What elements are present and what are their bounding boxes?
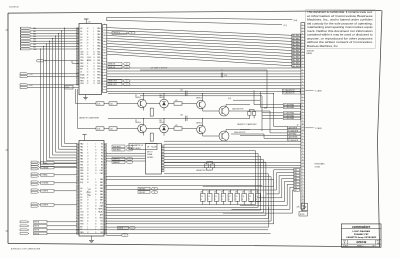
svg-text:6: 6 bbox=[242, 199, 243, 201]
wire +5V cass motor line bbox=[140, 67, 267, 108]
svg-text:KBD IN: KBD IN bbox=[109, 64, 116, 66]
svg-text:*1 CASS: *1 CASS bbox=[315, 89, 323, 92]
svg-text:37: 37 bbox=[87, 77, 89, 79]
svg-text:9: 9 bbox=[93, 48, 94, 50]
resistor emitter 1 bbox=[144, 107, 154, 116]
svg-text:3: 3 bbox=[222, 199, 223, 201]
label KBD ROW D2 with oval bbox=[108, 66, 130, 69]
svg-text:C4: C4 bbox=[242, 196, 244, 198]
svg-text:5: 5 bbox=[236, 199, 237, 201]
label cassette 2 amplifier bbox=[237, 123, 257, 126]
svg-text:2: 2 bbox=[93, 28, 94, 30]
svg-text:D4: D4 bbox=[80, 40, 82, 42]
wires cassette sense to U1 bbox=[28, 74, 79, 77]
wire bus U1 PA to right connector bbox=[107, 28, 292, 66]
svg-text:(3.1): (3.1) bbox=[284, 25, 288, 27]
svg-text:15: 15 bbox=[95, 150, 97, 152]
svg-text:C4: C4 bbox=[222, 196, 224, 198]
svg-text:KSW ROW: KSW ROW bbox=[113, 150, 121, 152]
svg-text:9: 9 bbox=[302, 193, 303, 195]
VCC tee above U3 bbox=[82, 135, 86, 141]
svg-text:4: 4 bbox=[302, 69, 303, 71]
svg-text:27: 27 bbox=[87, 46, 89, 48]
U3 left pin stubs bbox=[76, 144, 79, 235]
label box TO CASS 2 bbox=[129, 143, 157, 150]
svg-text:U8: U8 bbox=[147, 147, 149, 149]
svg-text:3: 3 bbox=[95, 161, 96, 163]
svg-text:10: 10 bbox=[302, 87, 304, 89]
svg-text:CS1: CS1 bbox=[80, 215, 83, 217]
svg-text:5: 5 bbox=[302, 181, 303, 183]
svg-text:CB2: CB2 bbox=[100, 173, 103, 175]
svg-text:3: 3 bbox=[302, 66, 303, 68]
svg-text:8: 8 bbox=[302, 81, 303, 83]
svg-text:TO CASS MTR: TO CASS MTR bbox=[288, 130, 299, 133]
svg-text:*2 CASS: *2 CASS bbox=[315, 127, 323, 130]
svg-text:*2 CASS READ: *2 CASS READ bbox=[284, 117, 294, 120]
wire input to transistor 1 bbox=[104, 103, 138, 105]
svg-text:EN: EN bbox=[80, 69, 83, 71]
svg-text:14: 14 bbox=[87, 156, 89, 158]
svg-text:8: 8 bbox=[95, 147, 96, 149]
svg-text:2N3904: 2N3904 bbox=[135, 122, 141, 124]
commodore logo bbox=[352, 225, 370, 229]
wires diag pins to U1 bbox=[28, 85, 79, 88]
wire Q2c output bbox=[226, 130, 250, 132]
svg-text:3: 3 bbox=[302, 102, 303, 104]
svg-text:32: 32 bbox=[87, 173, 89, 175]
svg-text:A PRODUCT OF COMMODORE: A PRODUCT OF COMMODORE bbox=[11, 248, 41, 251]
svg-text:CA2: CA2 bbox=[80, 178, 83, 181]
svg-text:16: 16 bbox=[87, 197, 89, 199]
svg-text:CB1: CB1 bbox=[100, 170, 103, 172]
svg-text:D2: D2 bbox=[80, 34, 82, 36]
svg-text:10: 10 bbox=[93, 57, 95, 59]
svg-text:CB2: CB2 bbox=[97, 83, 100, 85]
svg-text:D7: D7 bbox=[80, 209, 82, 211]
svg-text:NOTE: NOTE bbox=[300, 214, 304, 216]
svg-text:KEYBRD: KEYBRD bbox=[147, 157, 154, 159]
svg-text:6: 6 bbox=[302, 184, 303, 186]
wire cass read vertical links bbox=[228, 90, 283, 107]
svg-text:11: 11 bbox=[302, 54, 304, 56]
svg-text:D2: D2 bbox=[80, 194, 82, 196]
svg-text:PB2: PB2 bbox=[97, 63, 100, 65]
svg-text:(2.8): (2.8) bbox=[228, 98, 232, 100]
svg-text:KBD RW4: KBD RW4 bbox=[292, 47, 299, 49]
resistor R input 1 bbox=[96, 102, 104, 106]
label box above title block bbox=[299, 212, 308, 217]
svg-text:KB2: KB2 bbox=[100, 185, 103, 187]
wire keyboard lines upper pair bbox=[106, 185, 262, 189]
svg-text:KB6: KB6 bbox=[100, 197, 103, 199]
svg-text:7: 7 bbox=[302, 114, 303, 116]
border zone tick left bbox=[6, 30, 8, 231]
label CASS 1 READ with connector oval bbox=[112, 31, 135, 34]
label pair cass motor top tags bbox=[282, 89, 300, 95]
wire Q1c output bbox=[226, 105, 250, 107]
svg-text:40: 40 bbox=[93, 51, 95, 53]
svg-text:3: 3 bbox=[302, 139, 303, 141]
wire bus U3 keyboard rows lower bbox=[106, 205, 274, 224]
svg-text:CONN: CONN bbox=[315, 166, 321, 168]
VCC power tee above U1 bbox=[84, 19, 92, 24]
svg-text:KB2: KB2 bbox=[294, 175, 297, 177]
svg-text:8: 8 bbox=[256, 199, 257, 201]
svg-text:R2: R2 bbox=[101, 161, 103, 163]
svg-text:*1 CASS READ: *1 CASS READ bbox=[284, 103, 294, 106]
svg-text:12: 12 bbox=[302, 166, 304, 168]
resistor emitter 2 bbox=[144, 132, 154, 141]
svg-text:CASS MOTOR: CASS MOTOR bbox=[234, 131, 246, 134]
label KBD OUT 2 with oval bbox=[108, 83, 130, 86]
svg-text:28: 28 bbox=[95, 206, 97, 208]
svg-text:7: 7 bbox=[93, 43, 94, 45]
svg-text:9: 9 bbox=[95, 215, 96, 217]
svg-text:KB4: KB4 bbox=[100, 191, 103, 193]
svg-text:CR2: CR2 bbox=[159, 120, 162, 122]
svg-text:2: 2 bbox=[215, 199, 216, 201]
svg-text:25: 25 bbox=[87, 206, 89, 208]
svg-text:320349-B: 320349-B bbox=[9, 7, 19, 9]
svg-text:4: 4 bbox=[93, 34, 94, 36]
svg-text:R3: R3 bbox=[101, 164, 103, 166]
svg-text:3: 3 bbox=[302, 175, 303, 177]
svg-text:PB3: PB3 bbox=[80, 170, 83, 172]
svg-text:13: 13 bbox=[93, 66, 95, 68]
svg-text:4: 4 bbox=[302, 105, 303, 107]
svg-text:K3: K3 bbox=[101, 153, 103, 155]
svg-text:R0: R0 bbox=[101, 156, 103, 158]
transistor Q 1b 2N3904 bbox=[196, 97, 205, 108]
svg-text:PA1: PA1 bbox=[80, 146, 83, 149]
svg-text:2N3904: 2N3904 bbox=[135, 97, 141, 99]
svg-text:35: 35 bbox=[87, 176, 89, 178]
svg-text:5: 5 bbox=[87, 147, 88, 149]
U3 right pin boxes column bbox=[104, 144, 107, 235]
svg-text:CS0: CS0 bbox=[80, 51, 83, 53]
U1 right pin stubs bbox=[102, 29, 103, 84]
svg-text:KB7: KB7 bbox=[100, 200, 103, 202]
svg-text:D6: D6 bbox=[80, 206, 82, 208]
svg-text:CASSETTE #1 AMPLIFIER: CASSETTE #1 AMPLIFIER bbox=[79, 117, 100, 120]
svg-text:38: 38 bbox=[87, 75, 89, 77]
svg-text:7: 7 bbox=[302, 187, 303, 189]
svg-text:SIGNAL: SIGNAL bbox=[147, 153, 153, 156]
svg-text:SCALE: SCALE bbox=[343, 245, 348, 248]
svg-text:D0: D0 bbox=[80, 28, 82, 30]
svg-text:RS0: RS0 bbox=[80, 217, 83, 219]
wires U3 to U2 decoder bbox=[106, 154, 146, 162]
connector pins bottom-left group bbox=[20, 221, 29, 235]
svg-text:U3: U3 bbox=[88, 189, 90, 191]
svg-text:38: 38 bbox=[87, 179, 89, 181]
label stack cass read tags bbox=[283, 103, 300, 109]
svg-text:10K: 10K bbox=[228, 192, 231, 194]
svg-text:10K: 10K bbox=[242, 192, 245, 194]
svg-text:commodore: commodore bbox=[352, 225, 370, 229]
svg-text:KEYBOARD: KEYBOARD bbox=[315, 163, 326, 166]
wire pin E to U1 bbox=[44, 61, 79, 64]
resistor R2 input 1 bbox=[109, 102, 117, 106]
svg-text:9: 9 bbox=[87, 229, 88, 231]
wire base link 2 bbox=[146, 118, 196, 129]
svg-text:14: 14 bbox=[95, 200, 97, 202]
svg-text:EN: EN bbox=[80, 226, 83, 228]
label KBD ROW D with oval bbox=[108, 62, 130, 65]
svg-text:02: 02 bbox=[80, 229, 82, 231]
svg-text:G: G bbox=[154, 192, 155, 194]
cassette jumper 1 symbol bbox=[248, 109, 256, 118]
svg-text:4: 4 bbox=[104, 41, 105, 43]
svg-text:6: 6 bbox=[87, 226, 88, 228]
svg-text:#1 READ: #1 READ bbox=[41, 162, 48, 165]
svg-text:6: 6 bbox=[104, 52, 105, 54]
svg-text:26: 26 bbox=[87, 48, 89, 50]
svg-text:PB0: PB0 bbox=[80, 161, 83, 163]
svg-text:11: 11 bbox=[302, 90, 304, 92]
svg-text:1: 1 bbox=[104, 24, 105, 26]
svg-text:40: 40 bbox=[87, 80, 89, 82]
svg-text:3: 3 bbox=[87, 223, 88, 225]
svg-text:PA5: PA5 bbox=[97, 42, 100, 45]
svg-text:26: 26 bbox=[87, 167, 89, 169]
svg-text:CASS READ: CASS READ bbox=[288, 133, 298, 136]
wire bus J1 to U1 and vertical bus to U3 bbox=[32, 28, 80, 167]
title block rev cell A bbox=[377, 241, 380, 245]
svg-text:20: 20 bbox=[87, 161, 89, 163]
svg-text:1: 1 bbox=[95, 144, 96, 146]
svg-text:PB4: PB4 bbox=[80, 173, 83, 175]
svg-text:CASS SENSE: CASS SENSE bbox=[288, 136, 298, 139]
svg-text:C4: C4 bbox=[236, 196, 238, 198]
svg-text:DI0: DI0 bbox=[100, 220, 103, 222]
svg-text:7: 7 bbox=[249, 199, 250, 201]
svg-text:*2 CASS READ: *2 CASS READ bbox=[284, 112, 294, 115]
callout label cass 1 right of J2 bbox=[305, 89, 322, 92]
svg-text:6520: 6520 bbox=[87, 192, 91, 194]
svg-text:14: 14 bbox=[93, 69, 95, 71]
wires bottom-left group to U3 and across bbox=[47, 222, 271, 234]
svg-text:35: 35 bbox=[87, 63, 89, 65]
svg-text:5: 5 bbox=[95, 179, 96, 181]
svg-text:R/W: R/W bbox=[80, 223, 84, 225]
wires U3 row outputs lower bbox=[106, 177, 164, 180]
title block size cell B bbox=[343, 240, 346, 244]
transistor Q 1c power bbox=[219, 106, 229, 116]
label CASS MOTOR near Q2c bbox=[234, 131, 246, 134]
svg-text:NDAC: NDAC bbox=[98, 211, 103, 214]
svg-text:PB5: PB5 bbox=[97, 72, 100, 74]
svg-text:PB6: PB6 bbox=[97, 75, 100, 77]
svg-text:8: 8 bbox=[302, 154, 303, 156]
svg-text:1: 1 bbox=[302, 60, 303, 62]
svg-text:R1: R1 bbox=[101, 158, 103, 160]
svg-text:K2: K2 bbox=[101, 150, 103, 152]
svg-text:Business Machines, Inc.: Business Machines, Inc. bbox=[307, 44, 339, 48]
title block sheet row bbox=[343, 245, 376, 248]
svg-text:5: 5 bbox=[302, 145, 303, 147]
wire top reference B bbox=[107, 20, 288, 27]
svg-text:CB1: CB1 bbox=[30, 74, 33, 76]
svg-text:ATN: ATN bbox=[100, 214, 104, 217]
svg-text:3: 3 bbox=[104, 35, 105, 37]
svg-text:33: 33 bbox=[87, 28, 89, 30]
svg-text:36: 36 bbox=[95, 158, 97, 160]
svg-text:9: 9 bbox=[124, 235, 125, 237]
label cassette 1 amplifier bbox=[79, 117, 100, 120]
svg-text:2: 2 bbox=[302, 27, 303, 29]
svg-text:CS2: CS2 bbox=[80, 57, 83, 59]
wire U1 to amp inputs bbox=[76, 89, 97, 129]
svg-text:PB1: PB1 bbox=[97, 60, 100, 62]
svg-text:17: 17 bbox=[93, 77, 95, 79]
svg-text:PA2: PA2 bbox=[97, 33, 100, 36]
svg-text:PB4: PB4 bbox=[97, 69, 100, 71]
svg-text:29: 29 bbox=[95, 156, 97, 158]
svg-text:40: 40 bbox=[95, 194, 97, 196]
svg-text:BA3: BA3 bbox=[33, 35, 36, 38]
svg-text:#2 SENSE: #2 SENSE bbox=[41, 183, 48, 185]
svg-text:KB3: KB3 bbox=[100, 188, 103, 190]
wire bus mid to right connector lower bbox=[164, 141, 301, 168]
svg-text:D5: D5 bbox=[80, 43, 82, 45]
svg-text:KBD RW10: KBD RW10 bbox=[292, 66, 300, 68]
svg-text:8: 8 bbox=[87, 150, 88, 152]
svg-text:D7: D7 bbox=[80, 48, 82, 50]
svg-text:10: 10 bbox=[302, 124, 304, 126]
svg-text:RS0: RS0 bbox=[80, 60, 83, 62]
svg-text:2: 2 bbox=[95, 212, 96, 214]
svg-text:D0: D0 bbox=[80, 188, 82, 190]
svg-text:7: 7 bbox=[302, 42, 303, 44]
svg-text:C16: C16 bbox=[224, 75, 227, 77]
svg-text:LOGIC DIAGRAM: LOGIC DIAGRAM bbox=[352, 230, 370, 233]
ground symbol below U3 bbox=[89, 236, 94, 243]
svg-text:PA3: PA3 bbox=[97, 36, 100, 39]
svg-text:1N914: 1N914 bbox=[159, 122, 164, 124]
label CB2 with oval bbox=[138, 191, 158, 194]
label box RES on wire bbox=[65, 85, 73, 89]
+5V rail cassette amp 2 bbox=[108, 118, 250, 120]
svg-text:KB1: KB1 bbox=[100, 182, 103, 184]
svg-text:PA3: PA3 bbox=[80, 152, 83, 155]
svg-text:1: 1 bbox=[302, 133, 303, 135]
svg-text:18: 18 bbox=[93, 80, 95, 82]
svg-text:D3: D3 bbox=[80, 197, 82, 199]
svg-text:Q1: Q1 bbox=[135, 95, 137, 97]
IC U2 74145 BCD decoder bbox=[146, 144, 162, 175]
svg-text:8: 8 bbox=[93, 46, 94, 48]
label CB1 with oval bbox=[138, 187, 158, 190]
svg-text:12: 12 bbox=[302, 93, 304, 95]
label stack cassette motor tags bbox=[287, 126, 301, 142]
svg-text:PA6: PA6 bbox=[97, 45, 100, 48]
connector pins cassette sense left middle bbox=[20, 73, 33, 78]
svg-text:22: 22 bbox=[87, 51, 89, 53]
svg-text:IRQB: IRQB bbox=[80, 77, 85, 79]
svg-text:12: 12 bbox=[302, 57, 304, 59]
svg-text:KBD IN: KBD IN bbox=[109, 67, 116, 69]
svg-text:5: 5 bbox=[93, 37, 94, 39]
resistor R input 2 bbox=[96, 127, 104, 131]
confidentiality notice text block bbox=[306, 10, 376, 49]
svg-text:R4: R4 bbox=[101, 167, 103, 169]
svg-text:D6: D6 bbox=[80, 46, 82, 48]
wire Q1b emitter to Q1c base bbox=[203, 108, 219, 111]
svg-text:4: 4 bbox=[95, 229, 96, 231]
svg-text:8: 8 bbox=[302, 190, 303, 192]
wire fan keyboard tags bbox=[203, 170, 294, 213]
label stack keyboard outputs right bbox=[294, 169, 300, 192]
ground symbol below U1 bbox=[83, 95, 87, 100]
svg-text:12: 12 bbox=[95, 182, 97, 184]
svg-text:DI2: DI2 bbox=[100, 226, 103, 228]
svg-text:74L145: 74L145 bbox=[151, 147, 157, 149]
svg-text:Q2: Q2 bbox=[135, 120, 137, 122]
connector pins cassette read rows left bbox=[31, 161, 39, 207]
capacitor C3x on rail 1 bbox=[180, 89, 187, 96]
svg-text:16: 16 bbox=[95, 217, 97, 219]
svg-text:3: 3 bbox=[302, 30, 303, 32]
J1 pin labels bbox=[33, 27, 37, 51]
svg-text:CASS MOTOR: CASS MOTOR bbox=[232, 108, 244, 111]
wire collector Q1a to rail bbox=[143, 93, 144, 100]
svg-text:28: 28 bbox=[87, 43, 89, 45]
svg-text:PAGE: PAGE bbox=[307, 52, 313, 55]
svg-text:*2 CASS READ: *2 CASS READ bbox=[284, 114, 294, 117]
label stack cass write tags bbox=[262, 112, 300, 121]
svg-text:8: 8 bbox=[104, 64, 105, 66]
svg-text:10K: 10K bbox=[207, 192, 210, 194]
svg-text:6: 6 bbox=[93, 40, 94, 42]
svg-text:30: 30 bbox=[87, 37, 89, 39]
svg-text:41: 41 bbox=[87, 182, 89, 184]
svg-text:KEY IN: KEY IN bbox=[34, 222, 39, 224]
svg-text:47K: 47K bbox=[175, 100, 178, 102]
svg-text:C4: C4 bbox=[249, 196, 251, 198]
svg-text:#2 WRITE: #2 WRITE bbox=[41, 205, 48, 207]
svg-text:10: 10 bbox=[302, 160, 304, 162]
svg-text:C4: C4 bbox=[208, 196, 210, 198]
label KSW with oval row3 bbox=[112, 157, 133, 160]
transistor Q 2b 2N3904 bbox=[196, 122, 205, 134]
transistor Q 2c power bbox=[219, 131, 229, 141]
svg-text:RES: RES bbox=[80, 80, 84, 82]
svg-text:10K: 10K bbox=[214, 192, 217, 194]
svg-text:6520: 6520 bbox=[87, 60, 91, 62]
svg-text:47K: 47K bbox=[175, 125, 178, 127]
svg-text:CASSETTE &amp; KEYBOARD: CASSETTE &amp; KEYBOARD bbox=[346, 236, 377, 239]
wire +5V cass motor 2 line bbox=[140, 96, 262, 131]
diode CR 2 in circle bbox=[159, 120, 168, 136]
svg-text:25: 25 bbox=[87, 69, 89, 71]
svg-text:31: 31 bbox=[87, 212, 89, 214]
svg-text:10: 10 bbox=[95, 164, 97, 166]
svg-text:D1: D1 bbox=[80, 31, 82, 33]
svg-text:37: 37 bbox=[95, 226, 97, 228]
svg-text:10: 10 bbox=[302, 196, 304, 198]
capacitor C3x on rail 2 bbox=[180, 114, 187, 121]
svg-text:PB7: PB7 bbox=[97, 77, 100, 79]
svg-text:22: 22 bbox=[95, 153, 97, 155]
svg-text:40: 40 bbox=[87, 220, 89, 222]
svg-text:19: 19 bbox=[93, 83, 95, 85]
wire top reference A bbox=[107, 17, 298, 22]
svg-text:12: 12 bbox=[302, 130, 304, 132]
svg-text:KBD OUT: KBD OUT bbox=[109, 84, 118, 86]
svg-text:PIA: PIA bbox=[88, 194, 92, 197]
